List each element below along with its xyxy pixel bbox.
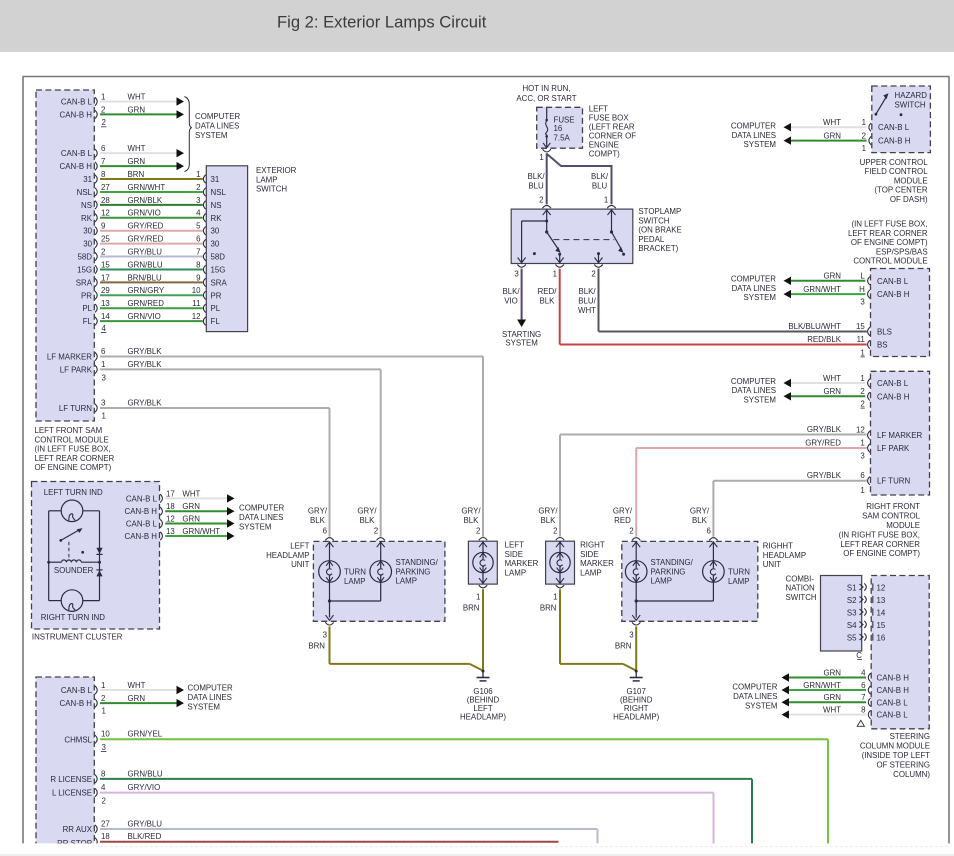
svg-text:UNIT: UNIT: [763, 560, 782, 569]
svg-text:STEERING: STEERING: [890, 732, 930, 741]
module M7: STEERING COLUMN MODULE box: [871, 576, 929, 729]
label BRN (left side marker): [463, 604, 480, 613]
node M5 pin L CAN-B L: [860, 272, 908, 286]
node M1 pin 13 PL: [82, 299, 110, 313]
node M6 pin 3 lower: [860, 451, 865, 460]
svg-text:(IN RIGHT FUSE BOX,: (IN RIGHT FUSE BOX,: [839, 530, 920, 539]
svg-text:GRN: GRN: [823, 272, 841, 281]
label TURN LAMP: [344, 568, 366, 586]
svg-text:LEFT: LEFT: [505, 541, 524, 550]
label STANDING/PARKING LAMP (right): [651, 558, 694, 586]
svg-text:3: 3: [323, 631, 328, 640]
node M8 pin 3 lower: [101, 743, 107, 752]
label RIGHHT HEADLAMP UNIT: [763, 542, 806, 570]
svg-text:CONTROL MODULE: CONTROL MODULE: [853, 257, 927, 266]
svg-text:LF TURN: LF TURN: [877, 477, 910, 486]
svg-text:BRACKET): BRACKET): [638, 244, 678, 253]
node lamp switch pin 7: [196, 247, 225, 261]
arrow to computer data lines (GRN/WHT): [227, 532, 235, 540]
svg-text:CAN-B H: CAN-B H: [125, 532, 158, 541]
svg-text:13: 13: [101, 299, 110, 308]
svg-text:GRY/: GRY/: [357, 507, 377, 516]
lamp right side marker: [550, 552, 570, 572]
label GRN: [182, 514, 200, 523]
node combination switch S1 to steering pin 12: [847, 583, 885, 592]
wire cluster rails: [49, 511, 100, 601]
svg-text:15: 15: [877, 621, 886, 630]
svg-text:UPPER CONTROL: UPPER CONTROL: [860, 158, 929, 167]
svg-text:BRN: BRN: [615, 642, 632, 651]
svg-text:WHT: WHT: [128, 681, 146, 690]
svg-text:LF TURN: LF TURN: [59, 404, 92, 413]
wire GRN from M1 pin 7: [100, 165, 177, 167]
wire GRN/YEL CHMSL: [100, 739, 828, 843]
svg-text:GRY/BLU: GRY/BLU: [128, 819, 163, 828]
svg-text:BLK: BLK: [360, 516, 376, 525]
wire GRN from M2 pin 18: [165, 510, 227, 512]
svg-text:CAN-B H: CAN-B H: [877, 290, 910, 299]
svg-text:6: 6: [861, 681, 866, 690]
svg-text:S3: S3: [847, 608, 857, 617]
svg-text:LAMP: LAMP: [728, 577, 750, 586]
label GRN (hazard): [823, 132, 841, 141]
svg-text:R LICENSE: R LICENSE: [50, 775, 92, 784]
label GRN (ESP): [823, 272, 841, 281]
svg-text:2: 2: [102, 796, 106, 805]
node M5 pin 1 lower: [860, 348, 864, 357]
node M2 pin 17 CAN-B L: [126, 489, 175, 503]
svg-text:GRY/BLU: GRY/BLU: [128, 247, 163, 256]
svg-text:CAN-B H: CAN-B H: [877, 686, 910, 695]
svg-text:12: 12: [192, 312, 201, 321]
svg-text:CAN-B H: CAN-B H: [877, 392, 910, 401]
node M6 pin 6 LF TURN: [860, 471, 910, 486]
svg-text:GRY/BLK: GRY/BLK: [807, 425, 842, 434]
svg-text:2: 2: [862, 132, 866, 141]
node M6 pin 2 lower: [860, 400, 864, 409]
node M6 pin 12 LF MARKER: [856, 426, 922, 441]
node M1 pin 29 PR: [81, 286, 110, 300]
svg-text:CAN-B L: CAN-B L: [877, 277, 909, 286]
node M1 pin 6 LF MARKER: [47, 347, 106, 362]
svg-text:NSL: NSL: [211, 188, 227, 197]
arrow to computer data lines (WHT): [227, 494, 235, 502]
label STARTING SYSTEM: [502, 330, 541, 348]
node left headlamp pin 3: [323, 622, 334, 639]
label WHT: [128, 144, 146, 153]
svg-text:WHT: WHT: [182, 489, 200, 498]
svg-text:28: 28: [101, 196, 110, 205]
svg-text:LEFT REAR CORNER: LEFT REAR CORNER: [840, 540, 920, 549]
svg-text:1: 1: [860, 486, 864, 495]
svg-text:RIGHT: RIGHT: [580, 541, 605, 550]
wire GRN steering to computer data lines: [789, 701, 866, 703]
svg-text:2: 2: [102, 118, 106, 127]
label GRY/BLK (M6 marker): [807, 425, 842, 434]
svg-text:CAN-B L: CAN-B L: [877, 711, 909, 720]
node combination switch pin C: [856, 651, 862, 660]
svg-text:SWITCH: SWITCH: [256, 185, 287, 194]
svg-text:INSTRUMENT CLUSTER: INSTRUMENT CLUSTER: [32, 633, 123, 642]
svg-text:GRN: GRN: [823, 387, 841, 396]
svg-text:NATION: NATION: [786, 584, 816, 593]
svg-text:DATA LINES: DATA LINES: [733, 692, 777, 701]
svg-text:OF ENGINE COMPT): OF ENGINE COMPT): [843, 549, 920, 558]
label TURN LAMP (right): [728, 568, 750, 586]
svg-text:(ON BRAKE: (ON BRAKE: [638, 226, 681, 235]
diode D2: [96, 570, 102, 577]
svg-text:DATA LINES: DATA LINES: [732, 284, 776, 293]
svg-text:17: 17: [101, 273, 110, 282]
svg-text:1: 1: [553, 593, 557, 602]
node left side marker pin 1: [476, 585, 487, 601]
svg-text:GRN/YEL: GRN/YEL: [128, 730, 163, 739]
svg-text:GRN: GRN: [182, 502, 200, 511]
svg-text:2: 2: [374, 526, 378, 535]
wire GRN from M2 pin 12: [165, 523, 227, 525]
svg-text:1: 1: [860, 374, 864, 383]
wire WHT M6 to computer data lines: [791, 382, 865, 384]
svg-text:7: 7: [196, 247, 200, 256]
label GRN/WHT (ESP): [803, 285, 841, 294]
node left headlamp pin 2: [374, 526, 385, 540]
svg-text:14: 14: [877, 608, 886, 617]
node lamp switch pin 10: [192, 286, 222, 300]
svg-text:RED/BLK: RED/BLK: [807, 335, 842, 344]
label BLK/RED: [128, 832, 162, 841]
lamp left side marker: [473, 552, 493, 572]
wire GRN/VIO M1 to exterior lamp switch: [100, 320, 203, 322]
node lamp switch pin 9: [196, 273, 227, 287]
svg-text:CAN-B L: CAN-B L: [61, 686, 93, 695]
node M8 pin 1 lower: [102, 706, 106, 715]
svg-text:S1: S1: [847, 583, 857, 592]
node stoplamp pin 2 top: [539, 196, 551, 208]
svg-text:DATA LINES: DATA LINES: [188, 693, 232, 702]
svg-text:8: 8: [101, 170, 106, 179]
svg-text:12: 12: [101, 209, 110, 218]
label COMPUTER DATA LINES SYSTEM (M6): [731, 377, 776, 405]
svg-text:12: 12: [166, 514, 175, 523]
svg-text:FL: FL: [211, 317, 221, 326]
label GRN (steering): [823, 668, 841, 677]
wire WHT from M8: [100, 689, 177, 691]
label GRN/RED: [128, 299, 165, 308]
svg-text:4: 4: [101, 783, 106, 792]
node lamp switch pin 6: [196, 235, 220, 249]
node M4 pin 2 CAN-B H: [862, 132, 911, 146]
label SOUNDER: [54, 566, 94, 575]
wire GRN from M1 pin 2: [100, 113, 177, 115]
svg-text:RIGHT FRONT: RIGHT FRONT: [866, 502, 920, 511]
svg-text:HEADLAMP): HEADLAMP): [613, 713, 659, 722]
svg-text:18: 18: [166, 502, 175, 511]
svg-text:GRN/VIO: GRN/VIO: [128, 209, 161, 218]
svg-text:WHT: WHT: [823, 706, 841, 715]
svg-text:3: 3: [101, 398, 106, 407]
wire GRY/BLU RR AUX: [100, 829, 598, 844]
svg-text:WHT: WHT: [128, 92, 146, 101]
wire GRY/RED right headlamp to M6 LF PARK: [636, 448, 867, 537]
label GRY/RED: [128, 235, 164, 244]
label COMPUTER DATA LINES SYSTEM (cluster): [239, 503, 284, 531]
label RIGHT FRONT SAM CONTROL MODULE: [839, 502, 921, 558]
node M1 pin 3 LF TURN: [59, 398, 106, 413]
svg-text:SOUNDER: SOUNDER: [54, 566, 94, 575]
node right side marker pin 1: [553, 585, 564, 601]
svg-text:2: 2: [101, 694, 105, 703]
node M4 pin 1 lower: [862, 144, 866, 153]
svg-text:58D: 58D: [211, 253, 226, 262]
svg-text:LF PARK: LF PARK: [60, 366, 93, 375]
node M1 pin 1 LF PARK: [60, 360, 106, 375]
svg-text:CAN-B L: CAN-B L: [878, 123, 910, 132]
wire GRY/BLK right headlamp turn to M6 LF TURN: [713, 481, 866, 537]
lamp left turn indicator: [61, 500, 83, 522]
svg-text:SYSTEM: SYSTEM: [239, 523, 271, 532]
svg-text:PL: PL: [82, 304, 92, 313]
label GRY/RED (right park): [613, 507, 633, 526]
label COMBINATION SWITCH: [786, 574, 817, 602]
arrow left M6 (GRN): [784, 392, 792, 400]
wire BLK/VIO to starting system: [521, 269, 523, 320]
ground G107: [630, 670, 643, 681]
fuse F16 symbol: [543, 107, 550, 147]
node M1 pin 17 SRA: [76, 273, 110, 287]
svg-text:15: 15: [101, 260, 110, 269]
svg-text:BLU/: BLU/: [578, 297, 596, 306]
arrow to computer data lines (WHT): [177, 149, 185, 157]
node lamp switch pin 2: [196, 183, 226, 197]
arrow to computer data lines (WHT): [177, 97, 185, 105]
svg-text:RR AUX: RR AUX: [63, 825, 93, 834]
svg-text:1: 1: [196, 170, 200, 179]
wire GRY/BLK LF TURN to left headlamp turn lamp: [100, 408, 330, 537]
svg-text:30: 30: [83, 227, 92, 236]
label LEFT TURN IND: [44, 488, 103, 497]
node lamp switch pin 3: [196, 196, 221, 210]
svg-text:30: 30: [83, 240, 92, 249]
svg-text:11: 11: [192, 299, 200, 308]
svg-text:LF PARK: LF PARK: [877, 444, 910, 453]
node M7 pin 4 CAN-B H: [861, 668, 909, 682]
hazard switch blade: [875, 93, 903, 116]
svg-text:(INSIDE TOP LEFT: (INSIDE TOP LEFT: [862, 751, 931, 760]
svg-text:SIDE: SIDE: [505, 550, 523, 559]
wire WHT from M1 pin 1: [100, 101, 177, 103]
svg-text:BLK/RED: BLK/RED: [128, 832, 162, 841]
svg-text:25: 25: [101, 235, 110, 244]
node M1 pin 15 15G: [77, 260, 110, 274]
lamp unit B2: LEFT HEADLAMP UNIT box: [313, 541, 445, 621]
svg-text:H: H: [859, 285, 865, 294]
node M5 pin 15 BLS: [856, 322, 892, 337]
wire GRY/BLK LF PARK to left headlamp standing/parking: [100, 369, 381, 536]
label GRY/BLK (LF TURN): [128, 398, 163, 407]
node M5 pin 11 BS: [857, 335, 888, 350]
wire WHT from M1 pin 6: [100, 152, 177, 154]
label WHT: [128, 92, 146, 101]
svg-text:10: 10: [192, 286, 201, 295]
bottom clip mask: [0, 843, 954, 856]
svg-text:CONTROL MODULE: CONTROL MODULE: [35, 435, 109, 444]
arrow to computer data lines (GRN): [177, 110, 185, 118]
svg-text:S5: S5: [847, 633, 857, 642]
node M1 pin 7 CAN-B H: [60, 157, 106, 171]
svg-text:WHT: WHT: [578, 306, 596, 315]
svg-text:COMPUTER: COMPUTER: [731, 122, 776, 131]
svg-text:GRN: GRN: [823, 132, 841, 141]
node M1 pin 8 31: [83, 170, 106, 184]
label G107 (BEHIND RIGHT HEADLAMP): [613, 687, 659, 722]
svg-text:FIELD CONTROL: FIELD CONTROL: [864, 167, 928, 176]
svg-text:1: 1: [553, 270, 557, 279]
node M6 pin 2 CAN-B H: [860, 387, 909, 401]
node M6 pin 1 LF PARK: [860, 438, 910, 453]
lamp unit B4: RIGHT SIDE MARKER LAMP box: [546, 541, 575, 584]
node M1 pin 25 30: [83, 235, 110, 249]
svg-text:STOPLAMP: STOPLAMP: [638, 207, 681, 216]
svg-text:BLK: BLK: [541, 516, 557, 525]
svg-text:SYSTEM: SYSTEM: [188, 703, 220, 712]
lamp standing/parking lamp (right): [625, 561, 647, 583]
svg-text:31: 31: [83, 175, 92, 184]
node M1 pin 28 NS: [81, 196, 110, 210]
svg-text:BS: BS: [877, 341, 888, 350]
arrow to computer data lines (GRN): [227, 507, 235, 515]
svg-text:SYSTEM: SYSTEM: [505, 339, 537, 348]
svg-text:HEADLAMP: HEADLAMP: [266, 551, 309, 560]
svg-text:3: 3: [629, 631, 634, 640]
svg-text:BRN/BLU: BRN/BLU: [128, 273, 163, 282]
node M6 pin 1 CAN-B L: [860, 374, 908, 388]
wire GRN ESP to computer data lines: [791, 280, 865, 282]
right headlamp internal wiring: [632, 541, 717, 620]
svg-text:LEFT TURN IND: LEFT TURN IND: [44, 488, 103, 497]
label WHT (steering): [823, 706, 841, 715]
wire BLK/RED RR STOP: [100, 841, 559, 843]
module M8: rear module box: [36, 677, 94, 845]
label GRN/VIO: [128, 312, 161, 321]
svg-text:2: 2: [101, 105, 105, 114]
svg-text:MODULE: MODULE: [886, 521, 920, 530]
svg-text:GRY/BLK: GRY/BLK: [128, 360, 163, 369]
svg-text:PEDAL: PEDAL: [638, 235, 664, 244]
svg-text:1: 1: [860, 438, 864, 447]
label GRN (M8): [128, 694, 146, 703]
node right side marker pin 2: [553, 526, 564, 540]
svg-text:WHT: WHT: [823, 374, 841, 383]
svg-text:(IN LEFT FUSE BOX,: (IN LEFT FUSE BOX,: [851, 220, 927, 229]
ground G106: [477, 670, 490, 681]
label GRY/BLU (RR AUX): [128, 819, 163, 828]
svg-text:27: 27: [101, 183, 110, 192]
node M2 pin 13 CAN-B H: [125, 527, 176, 541]
svg-text:1: 1: [862, 118, 866, 127]
svg-text:LF MARKER: LF MARKER: [47, 353, 92, 362]
label GRY/BLK (left side marker): [461, 507, 481, 526]
svg-text:GRY/RED: GRY/RED: [805, 438, 841, 447]
svg-text:CAN-B H: CAN-B H: [125, 507, 158, 516]
label LEFT HEADLAMP UNIT: [266, 542, 310, 570]
svg-text:8: 8: [101, 769, 106, 778]
label G106 (BEHIND LEFT HEADLAMP): [460, 687, 506, 722]
svg-text:GRY/RED: GRY/RED: [128, 235, 164, 244]
arrow to computer data lines M8 (GRN): [177, 699, 185, 707]
label HAZARD SWITCH: [895, 91, 928, 109]
label LEFT FRONT SAM CONTROL MODULE: [35, 426, 115, 472]
svg-text:GRY/: GRY/: [690, 507, 710, 516]
svg-text:LEFT REAR CORNER: LEFT REAR CORNER: [35, 454, 115, 463]
svg-text:BLK/: BLK/: [591, 172, 609, 181]
svg-text:COMBI-: COMBI-: [786, 574, 815, 583]
node right headlamp pin 2: [629, 526, 640, 540]
arrow left (WHT): [784, 123, 792, 131]
label COMPUTER DATA LINES SYSTEM (top left): [195, 112, 240, 140]
svg-text:18: 18: [101, 832, 110, 841]
node M1 pin 1 CAN-B L: [61, 92, 106, 106]
node M1 pin 6 CAN-B L: [61, 144, 106, 158]
label GRY/RED (M6 park): [805, 438, 841, 447]
label STANDING/PARKING LAMP (left): [396, 558, 439, 586]
svg-text:COLUMN): COLUMN): [893, 770, 930, 779]
svg-text:2: 2: [553, 526, 557, 535]
svg-text:16: 16: [877, 633, 886, 642]
svg-text:6: 6: [707, 526, 712, 535]
label COMPUTER DATA LINES SYSTEM (M8): [188, 684, 233, 712]
node stoplamp pin 2 bottom: [591, 265, 602, 279]
svg-text:GRN: GRN: [128, 694, 146, 703]
svg-text:COMPUTER: COMPUTER: [731, 275, 776, 284]
svg-text:29: 29: [101, 286, 110, 295]
svg-text:31: 31: [211, 175, 220, 184]
lamp turn lamp (left): [319, 561, 341, 583]
label GRN: [128, 157, 146, 166]
svg-text:BLK/BLU/WHT: BLK/BLU/WHT: [788, 322, 841, 331]
svg-text:PR: PR: [81, 291, 92, 300]
fuse box M3: LEFT FUSE BOX: [537, 107, 583, 148]
node lamp switch pin 12: [192, 312, 221, 326]
svg-text:GRN: GRN: [128, 105, 146, 114]
label WHT (M8): [128, 681, 146, 690]
svg-text:GRN/WHT: GRN/WHT: [803, 285, 841, 294]
arrow left (GRN): [784, 136, 792, 144]
wire GRN hazard to computer data lines: [791, 140, 867, 142]
node M1 pin 4 lower: [101, 324, 107, 333]
arrow left ESP (GRN): [784, 277, 792, 285]
arrow left ESP (GRN/WHT): [784, 290, 792, 298]
svg-text:2: 2: [476, 526, 480, 535]
svg-text:WHT: WHT: [823, 118, 841, 127]
svg-text:58D: 58D: [78, 253, 93, 262]
arrow left steering (GRN): [782, 673, 790, 681]
svg-text:GRY/VIO: GRY/VIO: [128, 783, 161, 792]
label GRN/WHT: [128, 183, 166, 192]
node M8 pin 1 CAN-B L: [61, 681, 106, 695]
node M7 pin 6 CAN-B H: [861, 681, 909, 695]
svg-text:9: 9: [196, 273, 201, 282]
svg-text:CAN-B H: CAN-B H: [60, 699, 93, 708]
switch B1: EXTERIOR LAMP SWITCH box: [206, 166, 247, 332]
svg-text:GRN/WHT: GRN/WHT: [803, 681, 841, 690]
label GRN/WHT (steering): [803, 681, 841, 690]
svg-text:4: 4: [102, 324, 107, 333]
wire BRN M1 to exterior lamp switch: [100, 178, 203, 180]
svg-text:PARKING: PARKING: [651, 567, 686, 576]
right side marker internals: [556, 541, 564, 584]
switch turn signal blade: [59, 528, 84, 554]
header title bar: [0, 0, 954, 52]
